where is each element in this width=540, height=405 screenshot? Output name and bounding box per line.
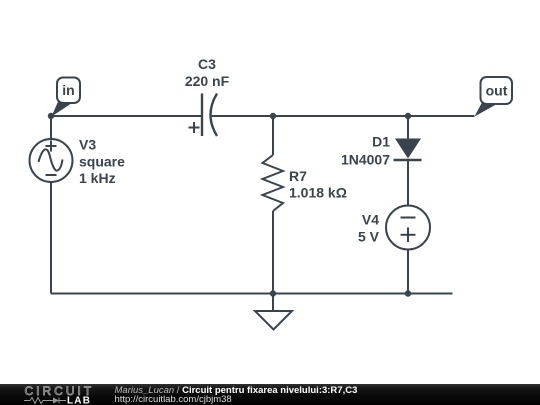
svg-text:1N4007: 1N4007 bbox=[341, 152, 390, 168]
wire D1 anode bbox=[407, 116, 409, 139]
svg-text:in: in bbox=[62, 82, 74, 98]
node A junction dot bbox=[270, 113, 276, 119]
wire top from node in to C3 left plate bbox=[51, 115, 201, 117]
svg-text:out: out bbox=[486, 83, 508, 99]
svg-text:V4: V4 bbox=[362, 212, 379, 228]
wire V3 bottom to rail bbox=[50, 182, 52, 294]
voltage source V4 bbox=[386, 206, 430, 250]
svg-text:http://circuitlab.com/cjbjm38: http://circuitlab.com/cjbjm38 bbox=[115, 394, 232, 405]
diode D1 bbox=[394, 139, 422, 161]
node in junction dot bbox=[48, 113, 54, 119]
ground bbox=[255, 311, 292, 330]
svg-text:1 kHz: 1 kHz bbox=[79, 170, 116, 186]
C3 plus sign bbox=[189, 122, 200, 133]
wire ground stem bbox=[272, 294, 274, 312]
svg-text:C3: C3 bbox=[198, 56, 216, 72]
wire bottom rail stub right of V4 bbox=[408, 293, 453, 295]
flag in bbox=[52, 78, 81, 117]
svg-text:square: square bbox=[79, 154, 125, 170]
svg-text:220 nF: 220 nF bbox=[185, 73, 230, 89]
node B junction dot bbox=[405, 113, 411, 119]
svg-text:R7: R7 bbox=[289, 168, 307, 184]
wire from node A to node B bbox=[273, 115, 408, 117]
svg-text:LAB: LAB bbox=[67, 396, 91, 405]
voltage source V3 bbox=[30, 139, 73, 182]
wire V4 bottom bbox=[407, 250, 409, 294]
wire V3 top bbox=[50, 116, 52, 140]
wire R7 top bbox=[272, 116, 274, 155]
wire bottom rail V3 to ground node bbox=[51, 293, 273, 295]
capacitor C3 bbox=[202, 94, 217, 137]
wire from node B to out flag bbox=[408, 115, 475, 117]
svg-text:D1: D1 bbox=[372, 134, 390, 150]
V4 bottom junction dot bbox=[405, 290, 411, 296]
svg-text:1.018 kΩ: 1.018 kΩ bbox=[289, 185, 347, 201]
wire R7 bottom bbox=[272, 211, 274, 294]
wire bottom rail ground node to V4 node bbox=[273, 293, 408, 295]
svg-text:V3: V3 bbox=[79, 137, 96, 153]
wire D1 cathode to V4 bbox=[407, 160, 409, 206]
wire from C3 right plate to node A bbox=[211, 115, 273, 117]
flag out bbox=[475, 77, 513, 117]
resistor R7 bbox=[263, 155, 284, 211]
svg-text:5 V: 5 V bbox=[358, 229, 380, 245]
footer bar bbox=[0, 384, 540, 405]
ground node junction dot bbox=[270, 290, 276, 296]
CircuitLab logo wire with resistor and diode bbox=[24, 398, 66, 404]
